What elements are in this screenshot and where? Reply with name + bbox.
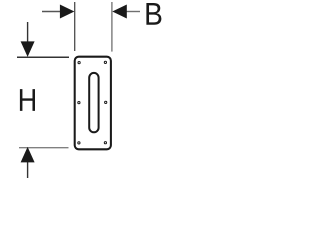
hole bottom-right: [104, 142, 106, 144]
H dimension arrow bottom (points up): [27, 162, 29, 179]
H extension line bottom: [19, 147, 69, 149]
B dimension arrow left (points right): [42, 11, 60, 13]
slot (central oblong cutout): [89, 73, 98, 132]
mounting plate outline: [75, 57, 111, 150]
B extension line left: [74, 2, 76, 51]
H extension line top: [17, 56, 69, 58]
hole bottom-left: [78, 142, 80, 144]
B dimension arrow right (points left): [127, 11, 141, 13]
hole top-right: [104, 61, 106, 63]
label H: [20, 89, 35, 111]
hole top-left: [78, 62, 80, 64]
label B: [146, 3, 161, 25]
H dimension arrow top (points down): [27, 22, 29, 43]
B extension line right: [111, 2, 113, 52]
hole mid-left: [78, 102, 80, 104]
hole mid-right: [105, 101, 107, 103]
